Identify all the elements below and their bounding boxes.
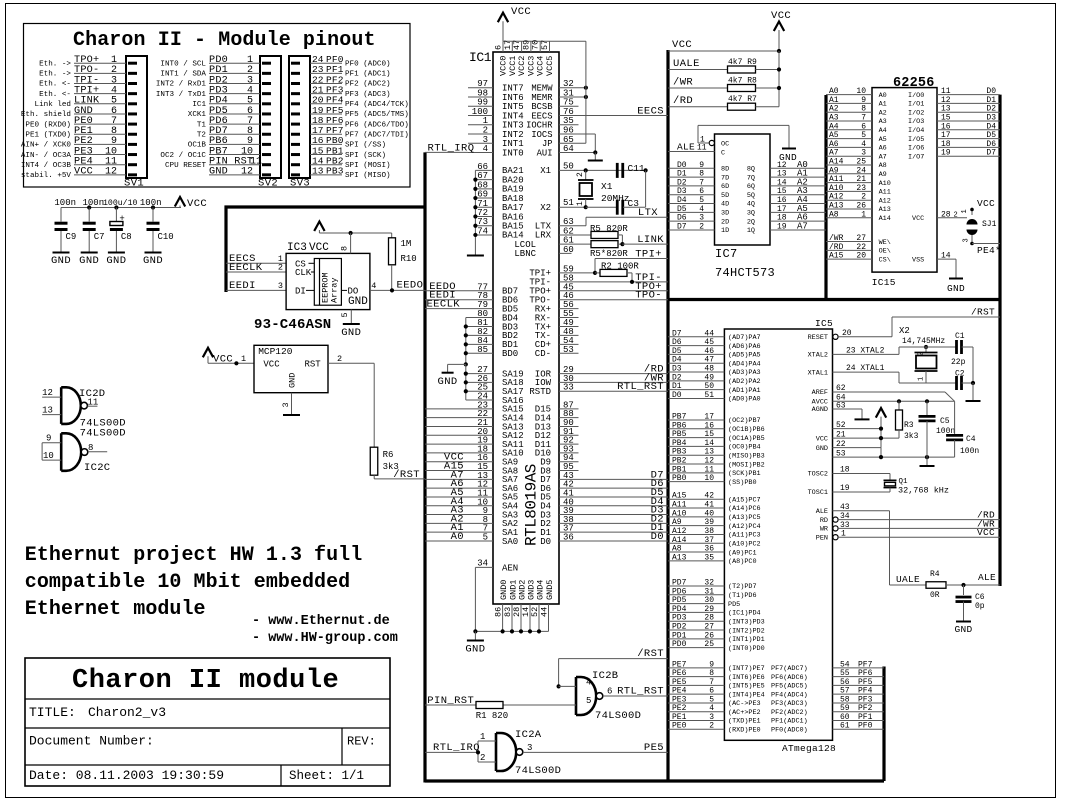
svg-text:SV1: SV1 xyxy=(124,178,144,190)
svg-text:4: 4 xyxy=(371,281,376,291)
svg-text:A10: A10 xyxy=(672,509,687,518)
svg-text:6Q: 6Q xyxy=(747,183,755,191)
svg-text:10: 10 xyxy=(43,451,54,461)
svg-text:1: 1 xyxy=(480,732,485,742)
svg-text:PF2: PF2 xyxy=(858,704,873,713)
wire PE1 to IC5 pin 3 xyxy=(668,719,724,721)
svg-text:PB2: PB2 xyxy=(672,457,687,466)
wire AGND to ground xyxy=(833,408,863,410)
svg-text:(AD3)PA3: (AD3)PA3 xyxy=(728,369,761,377)
section divider thick lines xyxy=(224,206,227,293)
svg-text:BD0: BD0 xyxy=(502,349,518,359)
wire PB7 to IC5 pin 17 xyxy=(668,419,724,421)
svg-text:2: 2 xyxy=(699,222,704,231)
wire BA address bus to ground xyxy=(474,170,476,255)
nand gate IC2C 74LS00D xyxy=(61,433,81,471)
svg-text:57: 57 xyxy=(840,687,850,696)
svg-text:Eth. ->: Eth. -> xyxy=(39,60,71,68)
svg-text:X1: X1 xyxy=(601,181,613,192)
wire VCC to MCP120 pin1 xyxy=(208,362,254,364)
wire AREF xyxy=(833,391,946,393)
svg-text:100n: 100n xyxy=(54,198,76,208)
svg-text:4: 4 xyxy=(861,140,866,149)
wire A14 to IC5 pin 37 xyxy=(668,542,724,544)
svg-text:21: 21 xyxy=(856,175,866,184)
IC1 pin 81 xyxy=(466,325,493,327)
IC1 pin 97 INT7 xyxy=(468,87,493,89)
svg-text:5: 5 xyxy=(861,131,866,140)
svg-text:PF1: PF1 xyxy=(858,713,873,722)
IC1 pin 11 SA5 xyxy=(425,496,493,498)
svg-text:I/O3: I/O3 xyxy=(908,118,924,126)
svg-text:A11: A11 xyxy=(672,501,687,510)
svg-text:AIN- / OC3A: AIN- / OC3A xyxy=(21,152,72,160)
wire D4 net from IC1 pin 40 xyxy=(559,505,668,507)
svg-text:ALE: ALE xyxy=(816,508,828,516)
svg-text:(A12)PC4: (A12)PC4 xyxy=(728,523,761,531)
wire C11 to C3 right vertical xyxy=(644,168,648,172)
svg-text:A13: A13 xyxy=(829,202,844,211)
svg-text:12: 12 xyxy=(704,457,714,466)
wire EECS to IC3 xyxy=(226,262,286,264)
wire PE5 net from IC2A out xyxy=(523,751,668,753)
IC1 pin 87 D15 stub xyxy=(559,408,579,410)
IC1 pin 94 D9 stub xyxy=(559,461,579,463)
svg-text:VCC: VCC xyxy=(309,242,329,254)
svg-text:WR: WR xyxy=(820,526,828,534)
svg-text:PB7: PB7 xyxy=(672,413,687,422)
svg-text:PF2(ADC2): PF2(ADC2) xyxy=(771,709,808,717)
wire PB3 to IC5 pin 13 xyxy=(668,454,724,456)
svg-text:PE4: PE4 xyxy=(672,687,687,696)
svg-text:11: 11 xyxy=(697,144,707,153)
svg-text:XTAL1: XTAL1 xyxy=(808,369,828,377)
wire VCC rail pullups xyxy=(668,50,779,52)
svg-text:53: 53 xyxy=(563,345,574,355)
svg-text:- www.HW-group.com: - www.HW-group.com xyxy=(252,631,398,646)
ground IC5 gnd net xyxy=(926,457,928,465)
svg-text:3k3: 3k3 xyxy=(904,432,919,441)
svg-text:(OC2)PB7: (OC2)PB7 xyxy=(728,417,761,425)
svg-text:REV:: REV: xyxy=(347,735,376,749)
svg-text:(OC1B)PB6: (OC1B)PB6 xyxy=(728,426,765,434)
svg-text:20MHz: 20MHz xyxy=(601,193,630,204)
svg-text:TITLE:: TITLE: xyxy=(29,705,76,720)
svg-text:IC1: IC1 xyxy=(469,50,492,65)
power symbol VCC pullups xyxy=(778,30,780,51)
capacitor C6 0p xyxy=(963,585,965,595)
svg-text:RTL_IRQ: RTL_IRQ xyxy=(428,142,475,154)
wire EEDO net to IC1 pin77 xyxy=(425,290,493,292)
svg-text:GND: GND xyxy=(143,255,163,267)
svg-text:8: 8 xyxy=(340,246,350,251)
svg-text:C9: C9 xyxy=(66,232,77,242)
wire A13 to IC5 pin 35 xyxy=(668,560,724,562)
wire VCC rail decoupling caps xyxy=(61,207,181,209)
svg-text:D0: D0 xyxy=(651,531,664,543)
svg-text:LINK: LINK xyxy=(637,234,664,246)
svg-text:PF7 (ADC7/TDI): PF7 (ADC7/TDI) xyxy=(345,131,409,139)
wire D6 from IC15 pin 18 xyxy=(937,146,1000,148)
wire A9 to IC15 pin 24 xyxy=(826,173,872,175)
IC1 pin 15 SA8 xyxy=(425,470,493,472)
svg-text:1Q: 1Q xyxy=(747,227,755,235)
svg-text:24: 24 xyxy=(856,166,866,175)
svg-text:0p: 0p xyxy=(975,602,985,611)
capacitor C2 xyxy=(955,376,958,390)
IC1 pin 1 INT3 xyxy=(468,124,493,126)
svg-text:25: 25 xyxy=(856,158,866,167)
IC1 VCC pin 57 xyxy=(549,41,551,52)
svg-text:D7: D7 xyxy=(672,329,682,338)
connector SV1 xyxy=(126,56,147,178)
svg-text:A9: A9 xyxy=(879,171,887,179)
svg-text:OE\: OE\ xyxy=(879,248,891,256)
IC1 pin 54 stub xyxy=(559,343,579,345)
svg-text:C2: C2 xyxy=(955,370,965,379)
wire IC15 VCC pin28 to SJ1 xyxy=(937,217,967,219)
svg-text:(INT0)PD0: (INT0)PD0 xyxy=(728,645,765,653)
svg-text:AREF: AREF xyxy=(812,389,828,397)
svg-text:9: 9 xyxy=(861,96,866,105)
svg-text:VCC: VCC xyxy=(74,167,93,178)
svg-text:D5: D5 xyxy=(677,205,687,214)
svg-text:RTL8019AS: RTL8019AS xyxy=(523,464,541,546)
svg-text:SPI (MOSI): SPI (MOSI) xyxy=(345,162,391,170)
IC1 pin 58 TPI- net xyxy=(559,281,668,283)
svg-text:D4: D4 xyxy=(677,196,687,205)
svg-text:D7: D7 xyxy=(986,149,996,158)
resistor R1 820 xyxy=(425,704,476,706)
svg-text:PE3: PE3 xyxy=(672,695,687,704)
svg-text:(IC1)PD4: (IC1)PD4 xyxy=(728,610,761,618)
svg-text:33: 33 xyxy=(563,383,574,393)
svg-text:D3: D3 xyxy=(672,365,682,374)
svg-text:A7: A7 xyxy=(829,149,839,158)
svg-text:PEN: PEN xyxy=(816,534,828,542)
svg-text:24 XTAL1: 24 XTAL1 xyxy=(846,364,885,373)
svg-text:15: 15 xyxy=(941,114,951,123)
wire A9 to IC5 pin 39 xyxy=(668,525,724,527)
svg-text:A0: A0 xyxy=(829,87,839,96)
svg-text:Ethernut project HW 1.3 full: Ethernut project HW 1.3 full xyxy=(25,544,362,567)
IC1 VCC pin 47 xyxy=(521,41,523,52)
svg-text:D1: D1 xyxy=(677,170,687,179)
IC1 pin 85 xyxy=(466,352,493,354)
power symbol VCC left rail xyxy=(179,206,181,208)
svg-text:VCC: VCC xyxy=(771,10,791,22)
svg-text:GND: GND xyxy=(465,644,485,656)
wire A11 to IC5 pin 41 xyxy=(668,507,724,509)
svg-text:A15: A15 xyxy=(829,252,844,261)
wire TOSC2 xyxy=(833,473,891,475)
svg-text:IC2A: IC2A xyxy=(515,729,542,741)
svg-text:OC: OC xyxy=(721,141,729,149)
svg-text:TOSC2: TOSC2 xyxy=(808,471,828,479)
svg-text:/RST: /RST xyxy=(637,648,664,660)
wire D5 net from IC1 pin 41 xyxy=(559,496,668,498)
svg-text:(OC0)PB4: (OC0)PB4 xyxy=(728,444,761,452)
power symbol VCC for MCP120 xyxy=(207,356,209,363)
svg-text:UALE: UALE xyxy=(896,574,920,585)
svg-text:(AC+>PE2: (AC+>PE2 xyxy=(728,709,761,717)
svg-text:PF5(ADC5): PF5(ADC5) xyxy=(771,683,808,691)
svg-text:11: 11 xyxy=(941,87,951,96)
svg-text:PD3: PD3 xyxy=(672,614,687,623)
svg-text:PB6: PB6 xyxy=(672,421,687,430)
capacitor C3 xyxy=(616,200,619,215)
svg-text:5D: 5D xyxy=(721,192,729,200)
svg-text:4: 4 xyxy=(709,704,714,713)
wire PB1 to IC5 pin 11 xyxy=(668,472,724,474)
svg-text:20: 20 xyxy=(856,252,866,261)
wire A2 from IC7 pin 14 xyxy=(770,185,826,187)
wire D3 to IC5 pin 48 xyxy=(668,371,724,373)
wire IC15 VSS to GND xyxy=(937,258,956,260)
svg-text:5: 5 xyxy=(340,312,350,317)
svg-text:IC5: IC5 xyxy=(815,318,833,329)
IC1 pin 100 INT4 xyxy=(468,114,493,116)
svg-text:I/O4: I/O4 xyxy=(908,127,924,135)
IC1 pin 22 SA14 xyxy=(425,417,493,419)
svg-text:2Q: 2Q xyxy=(747,218,755,226)
svg-text:PE2: PE2 xyxy=(672,704,687,713)
svg-text:2: 2 xyxy=(709,722,714,731)
svg-text:(MOSI)PB2: (MOSI)PB2 xyxy=(728,461,765,469)
svg-text:74LS00D: 74LS00D xyxy=(595,710,641,722)
svg-text:stabil. +5V: stabil. +5V xyxy=(21,172,72,180)
ground below C8 xyxy=(115,231,117,252)
svg-text:PD7: PD7 xyxy=(672,579,687,588)
IC1 pin 84 xyxy=(466,343,493,345)
svg-text:(T2)PD7: (T2)PD7 xyxy=(728,583,757,591)
svg-text:CD-: CD- xyxy=(535,349,551,359)
svg-text:A3: A3 xyxy=(879,118,887,126)
svg-text:IC2D: IC2D xyxy=(79,388,105,400)
svg-text:PD4: PD4 xyxy=(672,605,687,614)
svg-text:OC1B: OC1B xyxy=(188,142,207,150)
svg-text:6: 6 xyxy=(699,187,704,196)
svg-text:Date: 08.11.2003 19:30:59: Date: 08.11.2003 19:30:59 xyxy=(29,768,224,783)
svg-text:6: 6 xyxy=(861,122,866,131)
svg-text:(T1)PD6: (T1)PD6 xyxy=(728,592,757,600)
pinout box frame xyxy=(24,24,411,188)
wire D1 to IC7 pin 8 xyxy=(668,176,715,178)
svg-text:TPI-: TPI- xyxy=(529,278,551,288)
svg-text:55: 55 xyxy=(840,669,850,678)
svg-text:A6: A6 xyxy=(879,145,887,153)
svg-text:(A9)PC1: (A9)PC1 xyxy=(728,549,757,557)
IC1 pin 46 TPO- net xyxy=(559,299,668,301)
svg-text:R3: R3 xyxy=(904,421,914,430)
svg-text:PE4*: PE4* xyxy=(977,245,1001,256)
svg-text:32,768 kHz: 32,768 kHz xyxy=(898,486,949,496)
ground MCP120 pin3 xyxy=(291,393,293,415)
svg-text:74LS00D: 74LS00D xyxy=(515,765,561,777)
wire D2 to IC5 pin 49 xyxy=(668,380,724,382)
svg-text:compatible 10 Mbit embedded: compatible 10 Mbit embedded xyxy=(25,571,350,594)
svg-text:2: 2 xyxy=(480,753,485,763)
wire D6 net from IC1 pin 42 xyxy=(559,487,668,489)
IC1 pin 23 SA15 xyxy=(425,408,493,410)
svg-text:X1: X1 xyxy=(540,166,551,176)
wire PD1 to IC5 pin 26 xyxy=(668,638,724,640)
svg-text:I/O2: I/O2 xyxy=(908,109,924,117)
svg-text:PE1: PE1 xyxy=(672,713,687,722)
wire VCC rail above IC1 xyxy=(503,40,586,42)
IC1 pin 67 BA20 xyxy=(475,179,493,181)
svg-text:14: 14 xyxy=(777,178,787,187)
svg-text:PF5 (ADC5/TMS): PF5 (ADC5/TMS) xyxy=(345,111,409,119)
svg-text:PB5: PB5 xyxy=(672,430,687,439)
svg-text:D1: D1 xyxy=(986,96,996,105)
svg-text:(RXD)PE0: (RXD)PE0 xyxy=(728,726,761,734)
wire PB4 to IC5 pin 14 xyxy=(668,445,724,447)
ground IC3 pin5 xyxy=(350,310,352,324)
svg-text:17: 17 xyxy=(777,205,787,214)
svg-text:RTL_RST: RTL_RST xyxy=(617,381,664,393)
svg-text:RSTD: RSTD xyxy=(529,387,551,397)
svg-text:R5 820R: R5 820R xyxy=(590,224,628,234)
connector SV3 xyxy=(289,56,310,178)
svg-text:4Q: 4Q xyxy=(747,201,755,209)
wire PE3 to IC5 pin 5 xyxy=(668,702,724,704)
wire /WR to IC15 pin 27 xyxy=(826,241,872,243)
svg-text:D3: D3 xyxy=(986,114,996,123)
svg-text:(MISO)PB3: (MISO)PB3 xyxy=(728,452,765,460)
svg-text:PD5: PD5 xyxy=(672,596,687,605)
svg-text:6: 6 xyxy=(607,687,612,697)
IC1 pin 66 BA21 xyxy=(475,169,493,171)
svg-text:A12: A12 xyxy=(672,527,687,536)
IC1 pin 56 stub xyxy=(559,308,579,310)
wire A7 from IC7 pin 19 xyxy=(770,229,826,231)
svg-text:1: 1 xyxy=(576,201,585,206)
wire D6 to IC5 pin 45 xyxy=(668,345,724,347)
svg-text:2: 2 xyxy=(918,352,926,356)
svg-text:13: 13 xyxy=(42,406,53,416)
wire MEMW MEMR JP to VCC bus xyxy=(559,87,586,89)
crystal X1 20MHz xyxy=(585,170,587,180)
IC1 pin 10 SA4 xyxy=(425,505,493,507)
wire PD6 to IC5 pin 31 xyxy=(668,594,724,596)
wire A15 to IC5 pin 42 xyxy=(668,498,724,500)
IC1 VCC pin 89 xyxy=(530,41,532,52)
svg-text:19: 19 xyxy=(840,484,850,493)
svg-text:SPI (/SS): SPI (/SS) xyxy=(345,142,386,150)
svg-text:50: 50 xyxy=(563,161,574,171)
svg-text:8D: 8D xyxy=(721,166,729,174)
IC1 pin 45 TPO+ net xyxy=(559,290,668,292)
wire GND pins 22 53 xyxy=(833,447,882,449)
svg-text:100n: 100n xyxy=(140,198,162,208)
svg-text:51: 51 xyxy=(563,198,574,208)
wire A3 to IC15 pin 7 xyxy=(826,120,872,122)
svg-text:74: 74 xyxy=(477,226,488,236)
svg-text:A0: A0 xyxy=(451,531,464,543)
wire D2 from IC15 pin 13 xyxy=(937,111,1000,113)
svg-text:3D: 3D xyxy=(721,210,729,218)
svg-text:(INT5)PE5: (INT5)PE5 xyxy=(728,683,765,691)
svg-text:7: 7 xyxy=(699,178,704,187)
svg-text:RD: RD xyxy=(820,517,828,525)
svg-text:AUI: AUI xyxy=(537,148,553,158)
svg-text:D4: D4 xyxy=(672,356,682,365)
svg-text:3: 3 xyxy=(699,214,704,223)
wire D1 to IC5 pin 50 xyxy=(668,389,724,391)
svg-text:GND: GND xyxy=(438,376,458,388)
resistor R6 3k3 xyxy=(370,447,378,475)
svg-text:PE0 (RXD0): PE0 (RXD0) xyxy=(25,121,71,129)
svg-text:4: 4 xyxy=(586,678,591,688)
svg-text:2: 2 xyxy=(861,193,866,202)
svg-text:5: 5 xyxy=(586,696,591,706)
wire EECLK net to IC1 pin79 xyxy=(425,308,493,310)
svg-text:GND: GND xyxy=(51,255,71,267)
wire A5 from IC7 pin 17 xyxy=(770,211,826,213)
svg-text:50: 50 xyxy=(704,382,714,391)
IC1 pin 91 D12 stub xyxy=(559,434,579,436)
svg-text:1: 1 xyxy=(918,377,926,381)
svg-text:SPI (SCK): SPI (SCK) xyxy=(345,152,386,160)
svg-text:I/O5: I/O5 xyxy=(908,136,924,144)
svg-text:45: 45 xyxy=(704,338,714,347)
svg-text:A4: A4 xyxy=(829,122,839,131)
svg-text:4: 4 xyxy=(483,144,488,154)
wire D5 to IC5 pin 46 xyxy=(668,353,724,355)
wire A0 from IC7 pin 12 xyxy=(770,167,826,169)
svg-text:AIN+ / XCK0: AIN+ / XCK0 xyxy=(21,142,72,150)
wire AUI ground xyxy=(559,152,595,154)
resistor R7 4k7 on /RD xyxy=(668,106,728,108)
svg-text:2D: 2D xyxy=(721,218,729,226)
svg-text:PE5: PE5 xyxy=(644,742,664,754)
svg-text:62256: 62256 xyxy=(893,76,935,91)
wire PE0 to IC5 pin 2 xyxy=(668,728,724,730)
IC1 pin 27 SA19 xyxy=(466,373,493,375)
svg-text:C5: C5 xyxy=(940,417,950,426)
svg-text:IC2B: IC2B xyxy=(592,670,618,682)
wire A5 to IC15 pin 5 xyxy=(826,138,872,140)
svg-text:(AD6)PA6: (AD6)PA6 xyxy=(728,343,761,351)
svg-text:Charon2_v3: Charon2_v3 xyxy=(88,705,166,720)
svg-text:RST: RST xyxy=(305,359,322,369)
wire PE4 from SJ1 xyxy=(972,243,1000,245)
resistor R3 3k3 xyxy=(898,401,900,410)
svg-text:15: 15 xyxy=(704,430,714,439)
IC1 pin 13 SA7 xyxy=(425,478,493,480)
wire /RST from R6 to bus xyxy=(373,475,375,479)
svg-text:34: 34 xyxy=(477,559,488,569)
IC1 pin 24 SA16 xyxy=(466,399,493,401)
svg-text:A0: A0 xyxy=(879,92,887,100)
svg-text:C11: C11 xyxy=(628,163,645,174)
wire XTAL2 xyxy=(833,353,900,355)
svg-text:12: 12 xyxy=(42,388,53,398)
svg-text:41: 41 xyxy=(704,501,714,510)
svg-text:/RST: /RST xyxy=(971,307,995,318)
wire A15 to IC15 pin 20 xyxy=(826,258,872,260)
svg-text:I/O7: I/O7 xyxy=(908,153,924,161)
wire EEDO from IC3 DO to bus xyxy=(370,289,425,291)
svg-text:61: 61 xyxy=(840,722,850,731)
svg-text:ALE: ALE xyxy=(978,572,996,583)
svg-text:A8: A8 xyxy=(829,210,839,219)
svg-text:(A15)PC7: (A15)PC7 xyxy=(728,496,761,504)
svg-text:PD6: PD6 xyxy=(672,587,687,596)
svg-text:VCC5: VCC5 xyxy=(545,56,555,76)
svg-text:27: 27 xyxy=(704,623,714,632)
